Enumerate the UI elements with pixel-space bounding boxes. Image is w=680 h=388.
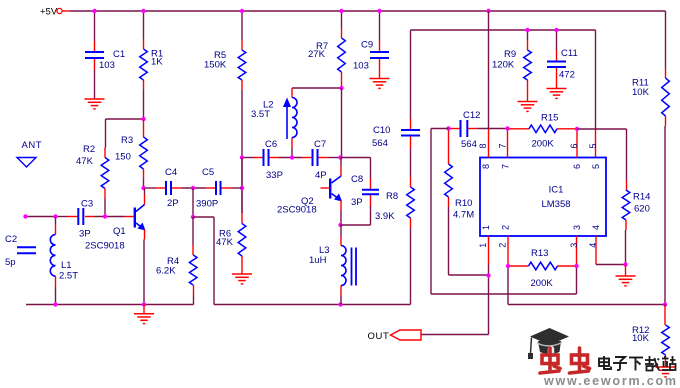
node +5V power rail (top)	[62, 10, 70, 12]
junction C12 left node	[446, 126, 450, 130]
svg-text:564: 564	[372, 138, 388, 149]
ground under R6	[232, 273, 252, 275]
svg-text:3: 3	[569, 243, 579, 248]
transistor Q2 collector	[340, 158, 342, 167]
pin 8 of IC1 (wire from +5V rail)	[488, 11, 490, 129]
svg-text:27K: 27K	[308, 49, 326, 60]
svg-text:2SC9018: 2SC9018	[85, 241, 125, 252]
capacitor C7	[312, 149, 314, 166]
svg-text:C4: C4	[165, 167, 177, 178]
svg-text:C9: C9	[361, 40, 373, 51]
svg-text:1: 1	[481, 225, 491, 230]
wire R1-R3 vertical	[143, 119, 145, 127]
junction at y=188 R6 column	[240, 186, 244, 190]
svg-text:200K: 200K	[531, 278, 554, 289]
svg-text:47K: 47K	[76, 156, 94, 167]
capacitor C5	[215, 181, 217, 195]
junction pin4/R14/ground node	[623, 262, 627, 266]
resistor R2	[101, 158, 109, 189]
svg-text:390P: 390P	[196, 199, 218, 210]
inductor L3	[341, 246, 346, 286]
resistor R10	[445, 164, 453, 197]
svg-text:103: 103	[99, 60, 115, 71]
wire C10/R8 column	[410, 30, 412, 119]
capacitor C12	[460, 120, 462, 137]
capacitor C1 branch wire	[94, 11, 96, 41]
wire R5-R6 column middle	[241, 158, 243, 214]
svg-text:4: 4	[591, 225, 601, 230]
svg-text:C6: C6	[265, 139, 277, 150]
capacitor C10	[401, 129, 420, 131]
inductor L1 pins	[55, 217, 57, 225]
pin 2 of IC1	[507, 236, 509, 265]
wire base row y=188 with C4 C5	[144, 187, 156, 189]
svg-text:6: 6	[569, 143, 579, 148]
junction R11-R12-pin2 node	[663, 302, 667, 306]
inductor L2 pins	[291, 88, 293, 98]
svg-text:2SC9018: 2SC9018	[277, 205, 317, 216]
svg-text:5p: 5p	[5, 257, 16, 268]
svg-text:564: 564	[461, 139, 477, 150]
junction L2 bottom	[290, 155, 294, 159]
capacitor C9	[370, 51, 389, 53]
junction L1 bottom	[53, 302, 57, 306]
ground under C9	[370, 78, 390, 80]
svg-text:R15: R15	[541, 113, 558, 124]
resistor R11	[662, 78, 670, 116]
svg-text:LM358: LM358	[541, 199, 570, 210]
wire bottom rail segment 2	[214, 304, 411, 306]
resistor R3	[140, 137, 148, 169]
svg-text:3.5T: 3.5T	[251, 109, 270, 120]
wire L2 top link y=88	[292, 87, 342, 89]
junction pin3/R13 node	[574, 264, 578, 268]
capacitor C11	[547, 61, 566, 63]
resistor R1	[140, 49, 148, 80]
wire Q2 emitter down	[340, 201, 342, 211]
junction R10 bottom on pin1 wire	[486, 273, 490, 277]
junction R1 bottom	[141, 117, 145, 121]
svg-text:150K: 150K	[204, 60, 227, 71]
pin 7 of IC1	[507, 131, 509, 158]
+5V terminal circle	[57, 8, 62, 13]
pin 1 of IC1	[488, 236, 490, 265]
transistor Q1 emitter with arrow	[136, 223, 145, 230]
wire R1 bottom to R2 link y=119	[106, 118, 144, 120]
resistor R9	[524, 50, 532, 80]
resistor R10 wire and pins	[448, 131, 450, 165]
wire pin6 node to R14	[577, 128, 627, 130]
junction C1 top	[92, 9, 96, 13]
svg-text:472: 472	[559, 70, 575, 81]
junction L1 top	[53, 214, 57, 218]
svg-text:2: 2	[500, 225, 510, 230]
svg-text:R8: R8	[386, 191, 398, 202]
junction R7 top	[339, 9, 343, 13]
ground under R12	[656, 366, 676, 368]
svg-text:R10: R10	[455, 198, 472, 209]
inductor L2	[292, 98, 297, 138]
wire C6/C7 row y=157.5	[242, 157, 254, 159]
resistor R11 wire	[665, 68, 667, 78]
ground at bottom rail	[143, 305, 145, 314]
svg-text:Q1: Q1	[113, 226, 126, 237]
wire antenna row y=216.5	[26, 216, 56, 218]
wire pin2 net to R11/R12 junction	[508, 304, 665, 306]
capacitor C8 branch	[341, 157, 371, 159]
svg-text:C1: C1	[113, 49, 125, 60]
wire pin5 vertical drop	[595, 30, 597, 129]
svg-text:5: 5	[591, 164, 601, 169]
svg-text:R13: R13	[531, 248, 548, 259]
junction C11 top	[554, 28, 558, 32]
resistor R15	[529, 125, 557, 133]
transistor Q1 base bar	[134, 208, 136, 228]
watermark chongchong characters	[540, 348, 590, 373]
svg-text:4P: 4P	[315, 170, 327, 181]
svg-text:C5: C5	[202, 167, 214, 178]
svg-text:C7: C7	[314, 139, 326, 150]
transistor Q1 base pin	[125, 216, 134, 218]
resistor R12 pins	[664, 305, 666, 307]
svg-text:103: 103	[353, 61, 369, 72]
junction pin7/R15 node	[505, 126, 509, 130]
capacitor C9 branch wire	[379, 11, 381, 41]
OUT port symbol	[391, 330, 422, 340]
svg-text:33P: 33P	[266, 170, 283, 181]
svg-text:7: 7	[497, 143, 507, 148]
L3 core bars	[351, 248, 353, 286]
svg-text:10K: 10K	[632, 333, 650, 344]
transistor Q2 emitter with arrow	[332, 194, 342, 201]
wire feedback row y=128.5 with C12	[450, 128, 461, 130]
wire C4C5 node down to R4 node	[192, 188, 194, 217]
svg-text:6: 6	[572, 164, 582, 169]
svg-text:1uH: 1uH	[309, 255, 327, 266]
capacitor C8	[362, 189, 379, 191]
capacitor C3	[77, 208, 79, 225]
resistor R8	[407, 187, 415, 218]
junction Q2 emitter node	[338, 223, 342, 227]
junction R3 bottom	[141, 186, 145, 190]
svg-text:L1: L1	[61, 260, 72, 271]
svg-text:C11: C11	[561, 48, 578, 59]
junction C3-base node	[103, 214, 107, 218]
pin 6 of IC1	[576, 131, 578, 158]
resistor R1 wire	[143, 11, 145, 39]
wire R7-bottom down to C7 node	[341, 88, 343, 158]
resistor R15 pins	[509, 128, 530, 130]
svg-text:R9: R9	[504, 49, 516, 60]
svg-text:R3: R3	[121, 135, 133, 146]
resistor R13 pins	[509, 265, 529, 267]
wire R14 bottom	[625, 220, 627, 230]
watermark site name characters	[599, 356, 676, 371]
junction Q1 emitter ground node	[142, 302, 146, 306]
svg-text:2.5T: 2.5T	[59, 271, 78, 282]
junction R1 top	[141, 9, 145, 13]
junction wire end left	[23, 214, 27, 218]
transistor Q1 collector pin	[144, 188, 146, 195]
svg-text:+5V: +5V	[40, 7, 58, 18]
capacitor C11 branch wire	[556, 30, 558, 50]
junction C9 top	[377, 9, 381, 13]
inductor L1	[50, 234, 55, 276]
wire pin3 net loop (x=431)	[431, 293, 577, 295]
svg-text:R2: R2	[83, 144, 95, 155]
svg-text:2P: 2P	[167, 198, 179, 209]
inductor L3 pins	[340, 225, 342, 237]
svg-text:3P: 3P	[351, 197, 363, 208]
resistor R6	[238, 224, 246, 257]
antenna symbol	[17, 158, 36, 168]
wire R2 bottom	[104, 189, 106, 199]
wire node A horizontal y=30 (R9/C11/pin5 net)	[411, 29, 596, 31]
transistor Q2 base bar	[329, 179, 331, 199]
junction R7 bottom	[339, 86, 343, 90]
svg-text:www.eeworm.com: www.eeworm.com	[543, 374, 678, 388]
svg-text:150: 150	[115, 152, 131, 163]
resistor R5 branch wire	[241, 11, 243, 40]
svg-text:ANT: ANT	[22, 140, 43, 151]
junction C4-C5 node	[191, 186, 195, 190]
resistor R9 branch wire	[527, 30, 529, 40]
resistor R4 pins	[192, 217, 194, 245]
resistor R7 wire	[341, 11, 343, 28]
pin 5 of IC1	[595, 129, 597, 158]
wire Q1 emitter down	[144, 230, 146, 240]
svg-text:5: 5	[588, 143, 598, 148]
ground under C11	[547, 88, 567, 90]
svg-text:C12: C12	[463, 110, 480, 121]
svg-text:IC1: IC1	[549, 185, 564, 196]
svg-text:C2: C2	[5, 234, 17, 245]
junction R9 top	[525, 28, 529, 32]
junction Q2 collector node	[338, 155, 342, 159]
capacitor C2 (floating)	[17, 246, 36, 248]
svg-text:620: 620	[634, 204, 650, 215]
junction +5V to pin8 drop	[486, 9, 490, 13]
L2 tuning arrow	[286, 105, 288, 139]
svg-text:8: 8	[478, 143, 488, 148]
ground under R9	[518, 101, 538, 103]
svg-text:1: 1	[478, 243, 488, 248]
resistor R4	[189, 255, 197, 285]
junction pin2/R13 node	[506, 264, 510, 268]
svg-text:120K: 120K	[492, 60, 515, 71]
resistor R13	[529, 262, 558, 270]
svg-text:C3: C3	[81, 199, 93, 210]
svg-text:200K: 200K	[532, 139, 555, 150]
svg-text:3P: 3P	[79, 229, 91, 240]
resistor R6 pins	[241, 213, 243, 224]
capacitor C6	[263, 149, 265, 166]
OUT port wire	[421, 334, 489, 336]
junction L3 bottom	[338, 302, 342, 306]
svg-text:3.9K: 3.9K	[375, 211, 395, 222]
pin 4 of IC1	[595, 236, 597, 265]
ground under pin4 node	[625, 265, 627, 277]
svg-text:8: 8	[481, 164, 491, 169]
svg-text:6.2K: 6.2K	[156, 266, 176, 277]
ground under C1	[85, 98, 105, 100]
svg-text:C8: C8	[351, 174, 363, 185]
svg-text:1K: 1K	[151, 57, 163, 68]
svg-text:C10: C10	[373, 125, 390, 136]
capacitor C1	[85, 51, 104, 53]
junction R5 top	[240, 9, 244, 13]
svg-text:10K: 10K	[632, 87, 650, 98]
wire jog to x=214 drop	[193, 216, 214, 218]
watermark graduation cap	[528, 328, 569, 359]
wire bottom rail left segment	[26, 304, 194, 306]
capacitor C4	[165, 181, 167, 195]
svg-text:R14: R14	[633, 192, 650, 203]
resistor R12	[662, 325, 670, 355]
svg-text:4: 4	[588, 243, 598, 248]
op-amp IC1 LM358 body	[480, 158, 606, 237]
svg-text:47K: 47K	[216, 237, 234, 248]
junction R5/R6 at C6 row	[240, 155, 244, 159]
transistor Q2 base pin	[321, 187, 330, 189]
resistor R5	[238, 50, 246, 80]
svg-text:2: 2	[497, 243, 507, 248]
resistor R7	[338, 38, 346, 72]
wire +5V rail right corner down to R11	[665, 11, 667, 68]
pin 3 of IC1	[576, 236, 578, 265]
junction R4 top node	[191, 215, 195, 219]
resistor R14	[622, 190, 630, 220]
svg-text:4.7M: 4.7M	[453, 210, 474, 221]
junction R15 right / pin6 node	[575, 127, 579, 131]
svg-text:7: 7	[500, 164, 510, 169]
svg-text:OUT: OUT	[368, 331, 390, 342]
svg-text:3: 3	[572, 225, 582, 230]
